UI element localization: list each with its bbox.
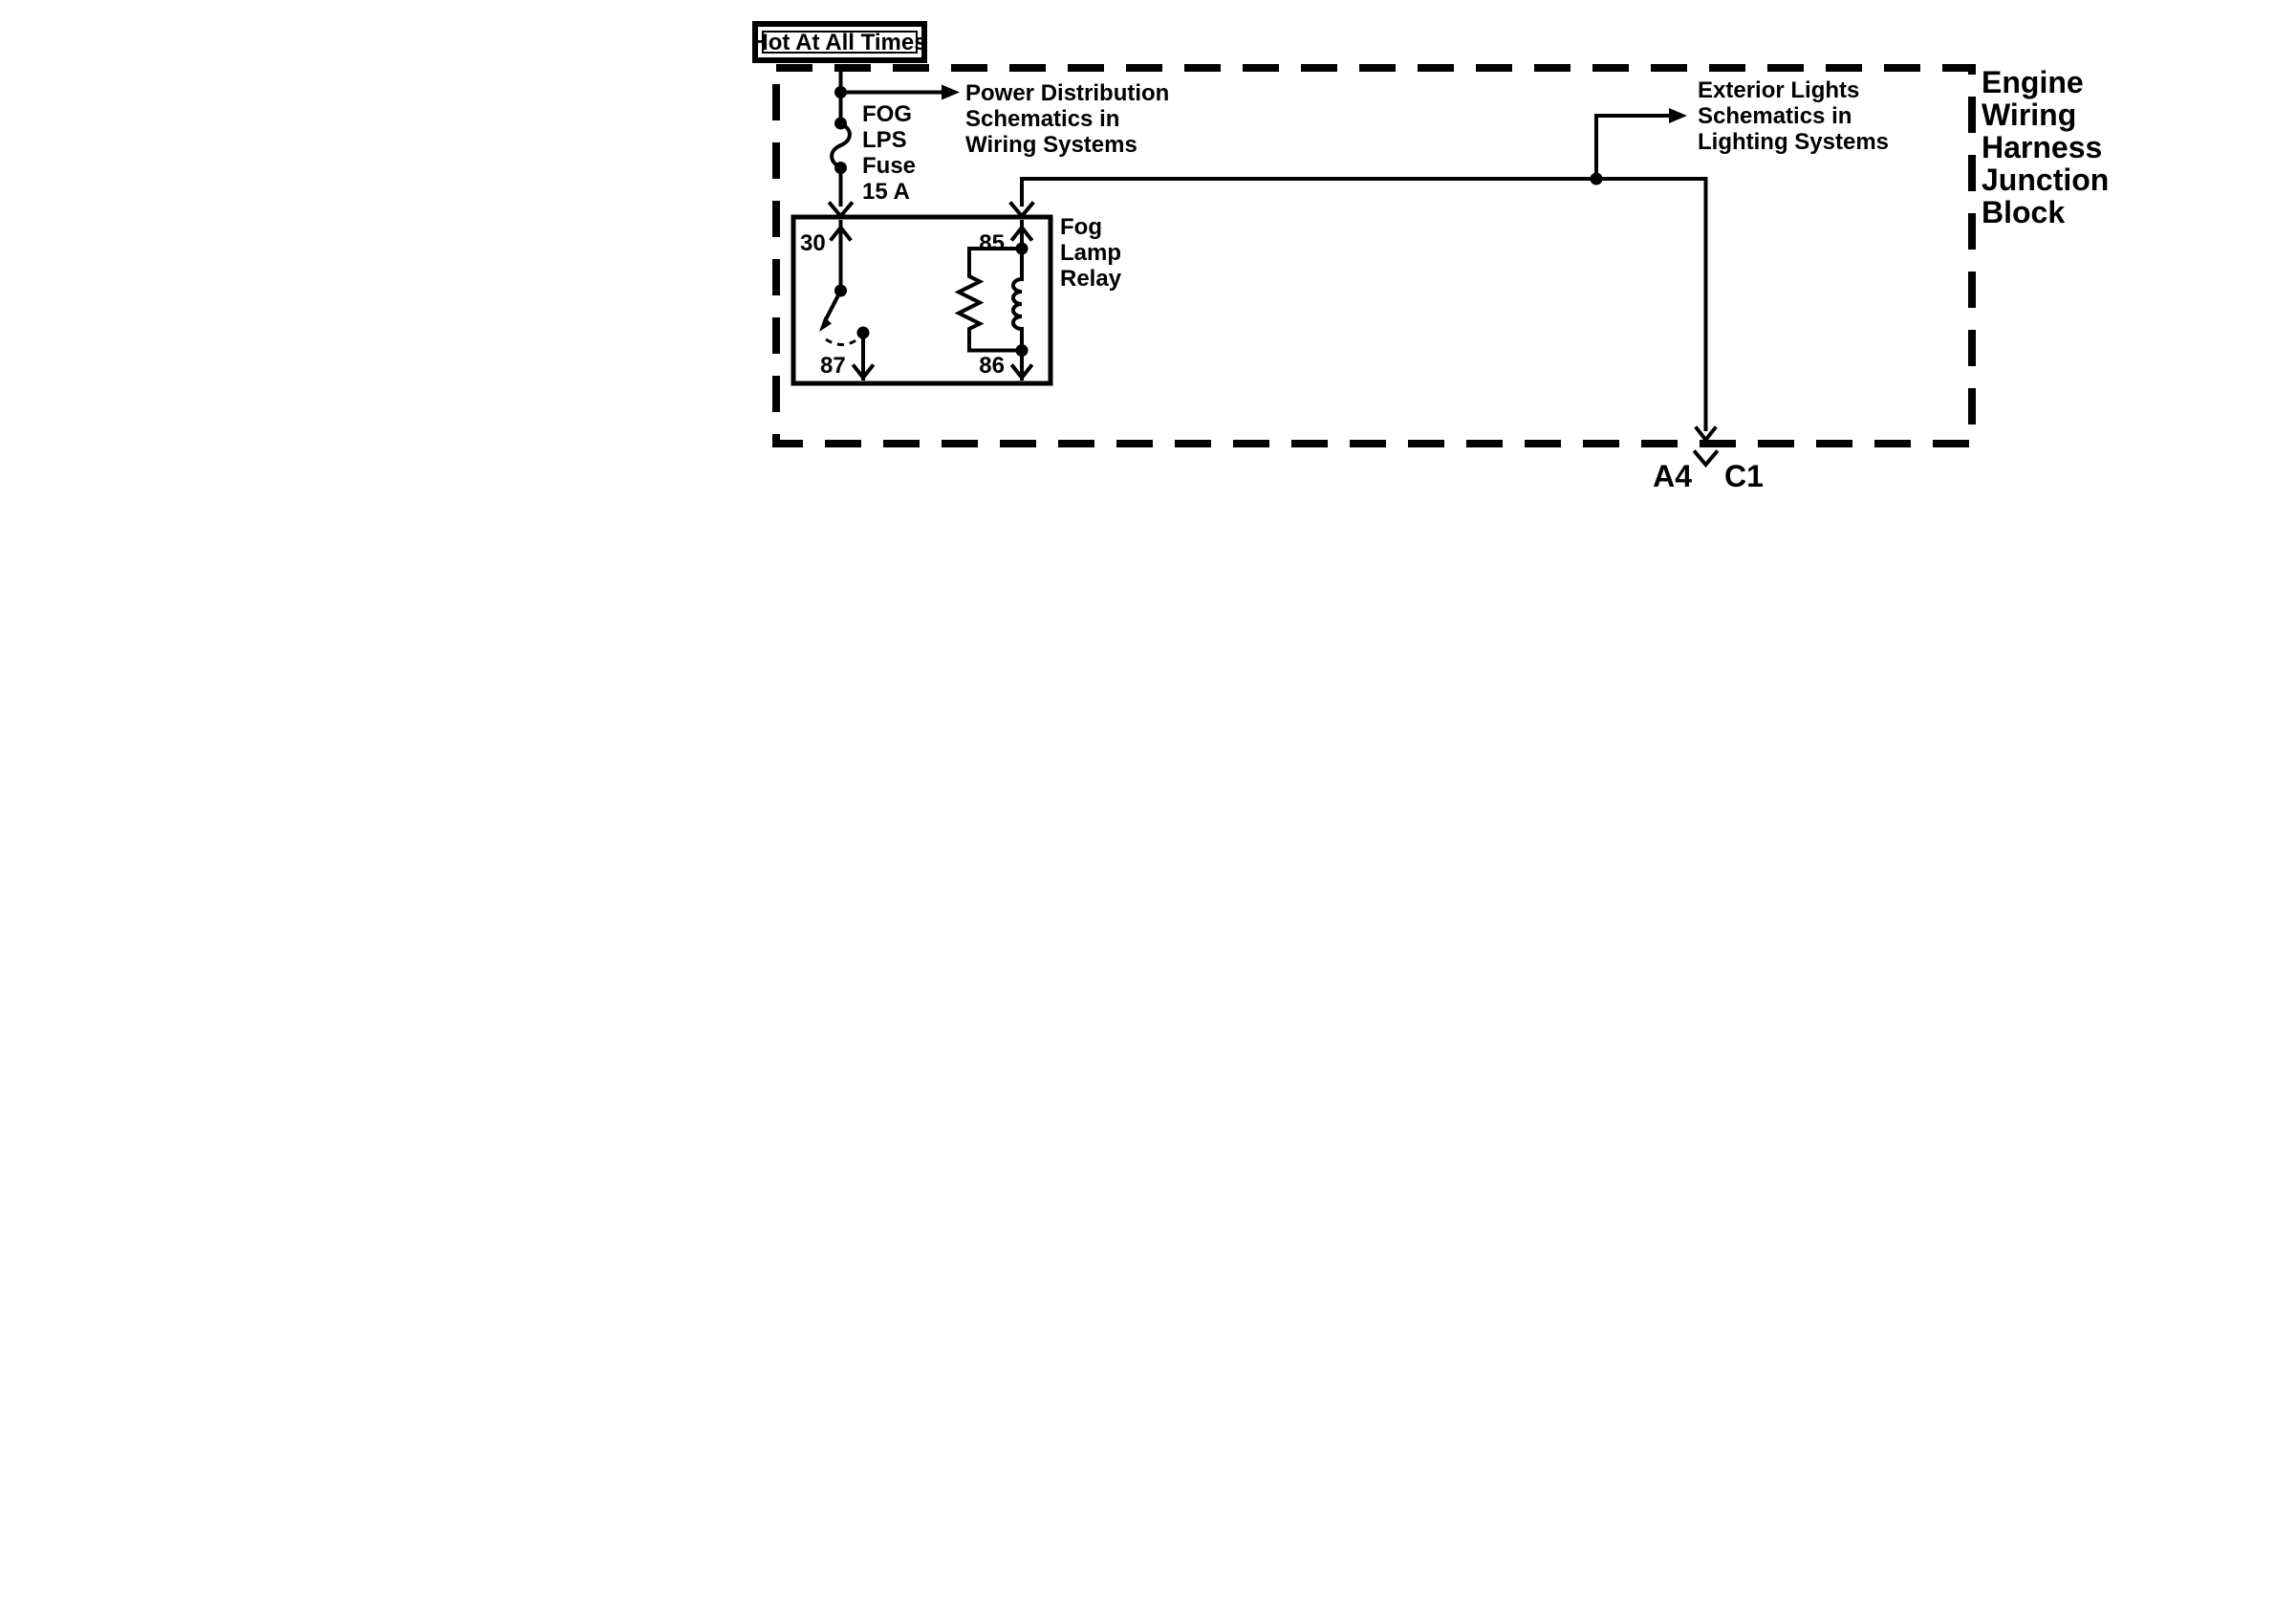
relay contact 87 (857, 327, 870, 339)
svg-text:85: 85 (979, 230, 1005, 256)
svg-text:Fuse: Fuse (862, 153, 916, 179)
Exterior Lights reference text (1698, 77, 1889, 155)
relay resistor (959, 249, 1022, 351)
svg-text:87: 87 (820, 353, 846, 379)
Engine Wiring Harness Junction Block label (1982, 65, 2109, 229)
Engine Wiring Harness Junction Block dashed box (776, 68, 1972, 444)
svg-text:C1: C1 (1724, 459, 1764, 493)
wire down to A4 (1704, 179, 1708, 429)
svg-text:15 A: 15 A (862, 179, 910, 205)
pin 85 feed wire (1022, 179, 1706, 205)
svg-text:A4: A4 (1653, 459, 1692, 493)
fuse label (862, 101, 916, 205)
wire to Power Distribution arrow (841, 91, 942, 95)
connector at relay pin 30 (831, 204, 852, 216)
wire fuse to relay pin30 (839, 168, 843, 206)
Fog Lamp Relay label (1060, 214, 1122, 292)
svg-text:Relay: Relay (1060, 266, 1122, 292)
svg-text:Lighting Systems: Lighting Systems (1698, 129, 1889, 155)
svg-text:Wiring: Wiring (1982, 98, 2076, 132)
svg-text:Hot At All Times: Hot At All Times (751, 30, 926, 55)
node to exterior lights (1591, 173, 1603, 185)
svg-text:86: 86 (979, 353, 1005, 379)
fuse FOG LPS 15A (832, 118, 850, 175)
connector A4/C1 (1696, 452, 1717, 465)
wire to Exterior Lights arrow (1596, 116, 1669, 179)
svg-text:FOG: FOG (862, 101, 912, 127)
svg-text:Harness: Harness (1982, 130, 2102, 164)
Hot At All Times feed box (751, 24, 926, 60)
relay coil (1013, 249, 1022, 351)
Power Distribution reference text (965, 80, 1169, 158)
connector at relay pin 85 top (1011, 204, 1032, 216)
svg-text:Engine: Engine (1982, 65, 2084, 99)
relay switch pivot (834, 285, 847, 297)
svg-text:Block: Block (1982, 195, 2065, 229)
node at power distribution tap (834, 86, 847, 98)
svg-text:Exterior Lights: Exterior Lights (1698, 77, 1859, 103)
wire from Hot feed to fuse (839, 68, 843, 123)
svg-text:Power Distribution: Power Distribution (965, 80, 1169, 106)
svg-text:Schematics in: Schematics in (965, 106, 1119, 132)
svg-text:LPS: LPS (862, 127, 907, 153)
svg-text:Lamp: Lamp (1060, 240, 1121, 266)
svg-text:Fog: Fog (1060, 214, 1102, 240)
Fog Lamp Relay box (793, 217, 1051, 383)
svg-text:Wiring Systems: Wiring Systems (965, 132, 1137, 158)
svg-text:Schematics in: Schematics in (1698, 103, 1852, 129)
svg-text:30: 30 (800, 230, 826, 256)
svg-text:Junction: Junction (1982, 163, 2109, 197)
relay switch arm (826, 291, 841, 319)
